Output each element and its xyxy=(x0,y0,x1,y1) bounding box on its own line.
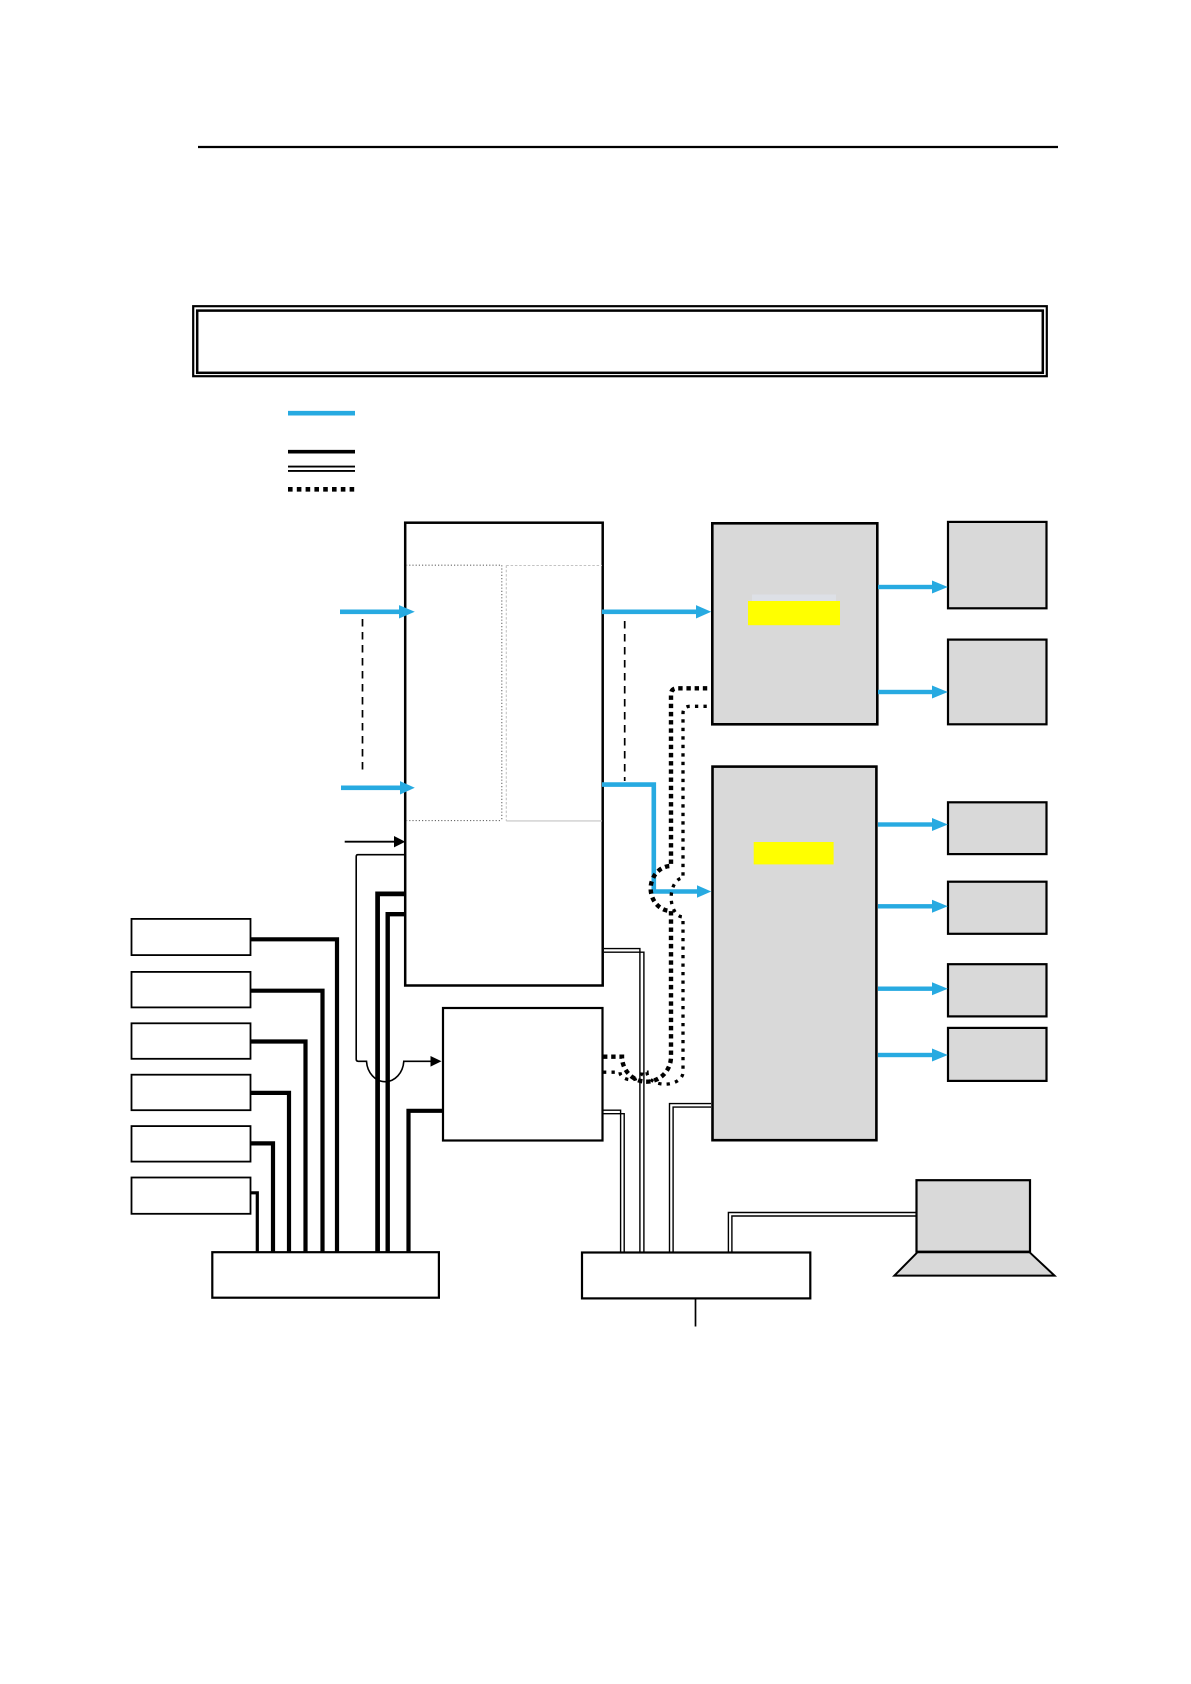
thin arrow wire T1 (main box around to middle box) xyxy=(356,855,431,1082)
small box D xyxy=(948,882,1047,934)
dashed vertical wire right xyxy=(624,621,626,781)
left box 3 xyxy=(132,1023,251,1059)
middle box xyxy=(443,1008,603,1141)
thick wire L5 (left box 5 to bus bar 1) xyxy=(251,1143,273,1252)
left box 6 xyxy=(132,1178,251,1214)
left box 5 xyxy=(132,1126,251,1162)
legend black solid line xyxy=(288,450,355,454)
small box E xyxy=(948,964,1047,1016)
thin floating arrow T2 (into main box) xyxy=(345,841,395,843)
legend double line xyxy=(288,467,355,471)
small box F xyxy=(948,1028,1047,1081)
laptop base xyxy=(894,1252,1054,1275)
title box (double border) xyxy=(193,306,1047,376)
blue arrow c (into main box lower left) xyxy=(341,781,415,794)
blue arrow j (gray box 2 to small box F) xyxy=(878,1049,948,1062)
laptop screen xyxy=(917,1180,1031,1252)
double line wire D4 (bus bar 2 to laptop) xyxy=(728,1213,916,1253)
small box C xyxy=(948,802,1047,854)
thick wire M2 (main box to bus bar 1) xyxy=(388,914,404,1252)
double line wire D2 (middle box right to bus bar 2) xyxy=(603,1110,624,1252)
thick wire M3 (middle box to bus bar 1) xyxy=(409,1111,444,1252)
main box right sub-box (gray outline) xyxy=(506,566,602,821)
left box 2 xyxy=(132,972,251,1008)
yellow highlight 2 xyxy=(754,842,834,864)
dotted wire P2 (gray box 1 to middle box, small dots, with hops) xyxy=(603,706,713,1084)
main box left sub-box (fine dotted) xyxy=(406,565,502,820)
thick wire L1 (left box 1 to bus bar 1) xyxy=(251,939,337,1252)
left box 4 xyxy=(132,1075,251,1111)
blue elbow arrow d (main box to gray box 2) xyxy=(602,785,698,892)
blue arrow e (gray box 1 to small box A) xyxy=(878,581,948,594)
bus bar 1 xyxy=(212,1252,439,1298)
thick wire L4 (left box 4 to bus bar 1) xyxy=(251,1093,289,1252)
left box 1 xyxy=(132,919,251,955)
dashed vertical wire left xyxy=(362,619,364,771)
blue arrow i (gray box 2 to small box E) xyxy=(878,982,948,995)
legend dotted line xyxy=(288,487,355,492)
blue arrow f (gray box 1 to small box B) xyxy=(878,686,948,699)
thick wire M1 (main box to bus bar 1) xyxy=(378,894,404,1252)
bus bar 2 xyxy=(582,1253,810,1299)
faint band above yellow highlight 1 xyxy=(752,595,836,602)
blue arrow b (main box to gray box 1) xyxy=(602,605,711,618)
double line wire D3 (gray box 2 to bus bar 2) xyxy=(670,1104,712,1252)
legend blue line xyxy=(288,411,355,416)
dotted wire P1 (gray box 1 to middle box, with hops) xyxy=(603,688,713,1081)
yellow highlight 1 xyxy=(748,601,840,625)
small box B xyxy=(948,640,1047,725)
double line wire D1 (main box right to bus bar 2) xyxy=(604,949,644,1252)
thick wire L2 (left box 2 to bus bar 1) xyxy=(251,991,323,1252)
header rule xyxy=(198,146,1058,148)
thin stub below bus bar 2 xyxy=(695,1298,697,1327)
gray box 2 xyxy=(713,767,877,1141)
gray box 1 xyxy=(712,523,877,724)
thick wire L6 (left box 6 to bus bar 1) xyxy=(251,1193,257,1252)
thick wire L3 (left box 3 to bus bar 1) xyxy=(251,1042,306,1253)
blue arrow h (gray box 2 to small box D) xyxy=(878,900,948,913)
blue arrow g (gray box 2 to small box C) xyxy=(878,818,948,831)
small box A xyxy=(948,522,1047,608)
main box xyxy=(405,523,603,986)
blue arrow a (into main box upper left) xyxy=(340,605,415,618)
